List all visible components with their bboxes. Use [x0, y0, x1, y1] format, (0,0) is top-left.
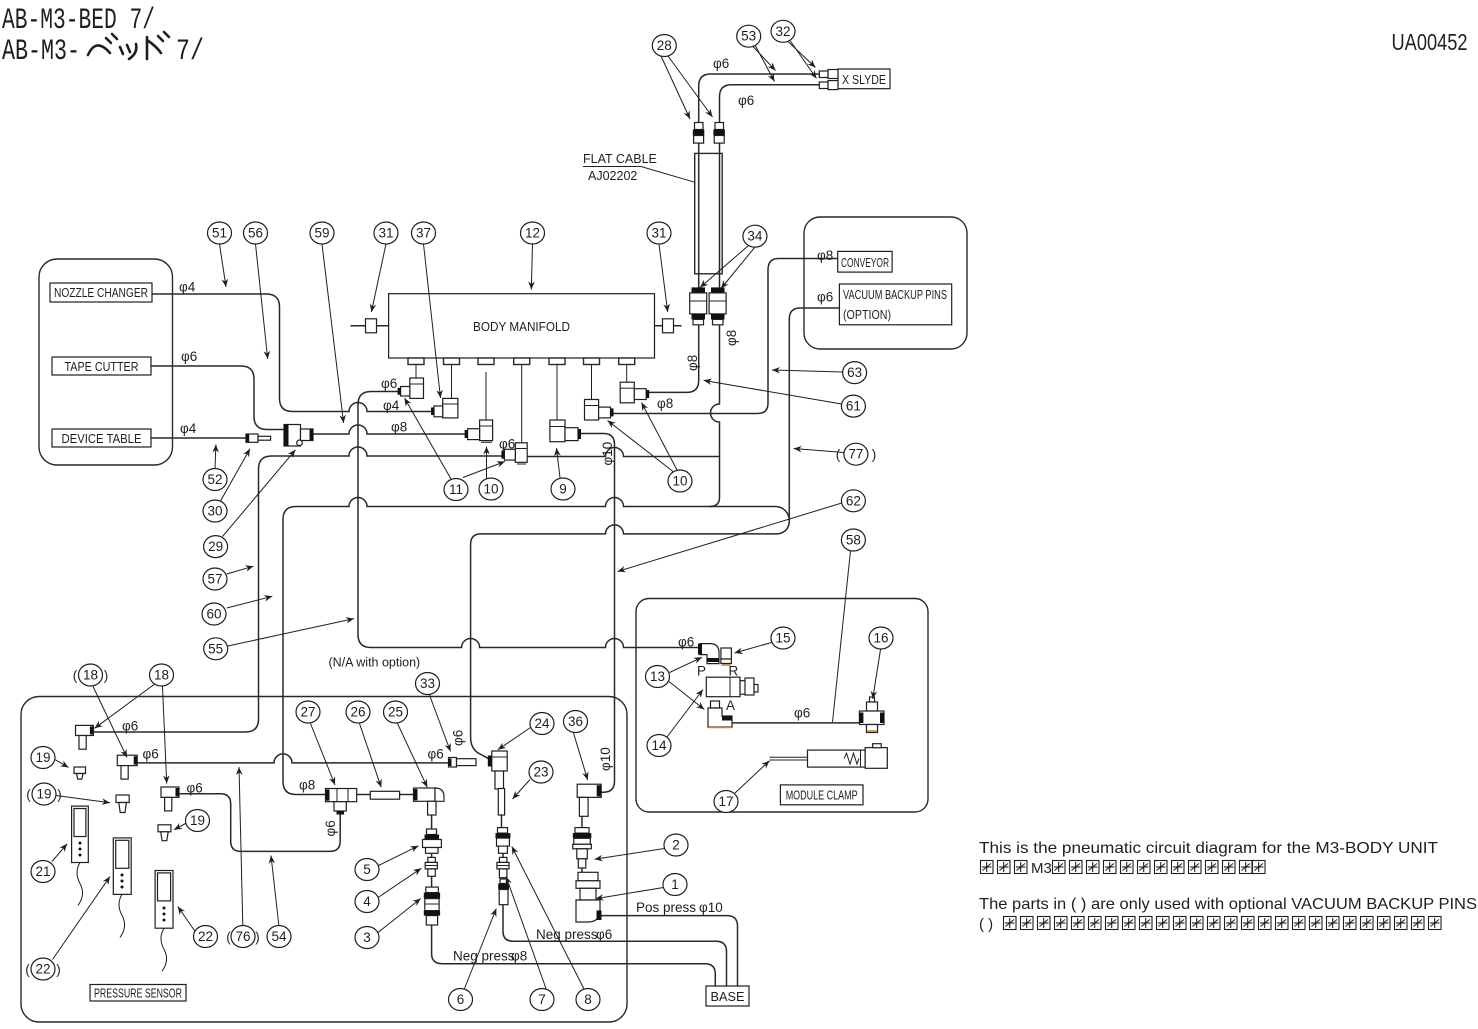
- fitting 5: [423, 829, 442, 853]
- svg-text:φ6: φ6: [323, 820, 338, 836]
- union fittings 34 pair below flat cable: [690, 287, 727, 324]
- svg-text:30: 30: [207, 504, 222, 519]
- balloon 15: [771, 627, 795, 649]
- rotated dimension labels: [323, 330, 739, 837]
- fitting 6: [498, 879, 509, 905]
- box DEVICE TABLE: [52, 429, 151, 447]
- enclosure pressure sensor bottom: [21, 697, 627, 1023]
- leader 13: [670, 657, 703, 672]
- balloon 4: [355, 891, 379, 913]
- balloon 34: [743, 225, 767, 247]
- leader 53: [753, 47, 776, 71]
- svg-text:φ4: φ4: [179, 280, 196, 295]
- box PRESSURE SENSOR: [90, 985, 186, 1002]
- balloon 18: [150, 664, 174, 686]
- svg-text:φ4: φ4: [180, 421, 197, 436]
- dimension labels: [122, 56, 833, 964]
- leader 2: [595, 849, 665, 860]
- balloon 7: [530, 989, 554, 1011]
- leader 77: [794, 449, 844, 453]
- leader 63: [772, 370, 843, 372]
- svg-text:A: A: [726, 698, 735, 713]
- strainer 26: [370, 791, 399, 799]
- svg-text:(: (: [836, 447, 841, 462]
- svg-text:φ8: φ8: [724, 330, 739, 346]
- leader 16: [873, 650, 881, 700]
- wire flat cable right tube to elbow4 line, X SLYDE lower: [710, 85, 839, 507]
- wire fitting24 stem chain col: [502, 773, 504, 879]
- leader 25: [398, 724, 428, 788]
- leader 15: [735, 643, 772, 654]
- balloon 32: [771, 20, 795, 42]
- balloon 52: [203, 469, 227, 491]
- leader 10 two arrows: [486, 447, 488, 479]
- leader 18 parens: [93, 687, 127, 758]
- svg-text:25: 25: [388, 705, 403, 720]
- svg-text:Pos press: Pos press: [636, 900, 696, 915]
- svg-text:φ8: φ8: [511, 949, 527, 964]
- svg-text:φ6: φ6: [187, 781, 203, 796]
- module elbow A 14: [708, 701, 732, 728]
- svg-text:12: 12: [525, 226, 540, 241]
- svg-text:X SLYDE: X SLYDE: [842, 73, 886, 87]
- leader 14: [667, 690, 703, 738]
- plug 19-2: [116, 795, 129, 813]
- balloon 30: [203, 500, 227, 522]
- pressure sensor 22a: [113, 838, 131, 938]
- svg-text:AB-M3-BED 7/: AB-M3-BED 7/: [2, 4, 155, 38]
- port7 elbow fitting: [620, 382, 649, 403]
- leader 27: [311, 724, 336, 786]
- balloon 28: [652, 35, 676, 57]
- svg-text:PRESSURE SENSOR: PRESSURE SENSOR: [94, 987, 182, 1001]
- port1 elbow fitting: [398, 378, 424, 398]
- balloon 31 left: [374, 222, 398, 244]
- svg-text:Neg press: Neg press: [536, 927, 598, 942]
- svg-text:19: 19: [36, 787, 51, 802]
- svg-text:φ6: φ6: [122, 719, 138, 734]
- balloon 29: [204, 536, 228, 558]
- wire phi10 port5 down to elbow36: [578, 434, 615, 793]
- svg-text:φ6: φ6: [143, 747, 159, 762]
- svg-text:φ10: φ10: [699, 900, 723, 915]
- svg-text:76: 76: [235, 929, 250, 944]
- svg-text:21: 21: [35, 864, 50, 879]
- svg-text:BODY MANIFOLD: BODY MANIFOLD: [473, 320, 570, 334]
- svg-text:φ6: φ6: [181, 349, 197, 364]
- svg-text:φ6: φ6: [428, 747, 444, 762]
- manifold ports: [408, 358, 635, 365]
- svg-text:BASE: BASE: [711, 990, 745, 1004]
- svg-text:62: 62: [846, 493, 861, 508]
- balloon 8: [576, 989, 600, 1011]
- elbow 18-3: [161, 787, 179, 811]
- balloon 36: [564, 711, 588, 733]
- leader 23: [513, 780, 531, 800]
- svg-text:32: 32: [775, 24, 790, 39]
- quick joint socket 29: [284, 425, 313, 447]
- balloon 19 parens: [26, 783, 62, 805]
- wire port4 right segment to bracket: [527, 448, 719, 457]
- leader 36: [574, 733, 588, 780]
- balloon 10 right: [668, 470, 692, 492]
- leader 52: [214, 445, 217, 469]
- leader 7: [506, 877, 546, 989]
- svg-text:52: 52: [207, 472, 222, 487]
- balloon 27: [296, 701, 320, 723]
- svg-text:φ6: φ6: [596, 927, 612, 942]
- svg-text:CONVEYOR: CONVEYOR: [841, 256, 889, 270]
- balloon 1: [663, 874, 687, 896]
- wire tee27 to strainer26: [357, 794, 371, 796]
- balloons: [25, 20, 893, 1010]
- leader 59: [322, 244, 344, 423]
- leader 31 right: [659, 244, 668, 312]
- balloon 53: [737, 25, 761, 47]
- balloon 51: [208, 222, 232, 244]
- svg-text:φ8: φ8: [657, 396, 673, 411]
- leader 29: [223, 450, 296, 537]
- svg-text:13: 13: [650, 669, 665, 684]
- balloon 22: [194, 926, 218, 948]
- svg-text:P: P: [697, 664, 706, 679]
- fitting 3: [424, 887, 440, 925]
- svg-text:AB-M3-: AB-M3-: [2, 35, 80, 69]
- svg-text:): ): [57, 787, 62, 802]
- wire neg press phi8 to BASE: [432, 925, 716, 986]
- fitting 4: [425, 857, 437, 876]
- japanese line 2: [979, 916, 1441, 933]
- leader 19 parens: [56, 796, 110, 803]
- balloon 19-1: [31, 747, 55, 769]
- leader 56: [256, 244, 268, 359]
- svg-text:AJ02202: AJ02202: [588, 169, 637, 183]
- leader 55: [228, 619, 354, 646]
- svg-text:(: (: [26, 787, 31, 802]
- svg-text:): ): [872, 447, 877, 462]
- box BASE: [706, 986, 749, 1006]
- svg-text:φ8: φ8: [685, 355, 700, 371]
- leader 17: [735, 761, 770, 793]
- inline fitting 33: [449, 758, 477, 768]
- balloon 33: [416, 673, 440, 695]
- wire nozzle changer phi4 to port2: [152, 294, 434, 412]
- svg-text:7/: 7/: [176, 35, 204, 69]
- balloon 61: [841, 395, 865, 417]
- svg-text:4: 4: [363, 894, 371, 909]
- balloon 9: [551, 478, 575, 500]
- fitting 2: [573, 828, 592, 868]
- wire port1 phi6 to module clamp valve: [358, 392, 699, 648]
- japanese line 1: [981, 860, 1266, 877]
- leader 30: [221, 449, 251, 501]
- body manifold: [389, 294, 655, 358]
- svg-text:8: 8: [584, 992, 592, 1007]
- wire elbow25 stem to fitting5 chain: [431, 813, 433, 887]
- svg-text:19: 19: [35, 750, 50, 765]
- enclosure left (nozzle/tape/device): [39, 259, 173, 465]
- svg-text:60: 60: [206, 607, 221, 622]
- balloon 56: [244, 222, 268, 244]
- box TAPE CUTTER: [52, 357, 151, 375]
- svg-text:61: 61: [846, 399, 861, 414]
- balloon 17: [714, 791, 738, 813]
- svg-text:56: 56: [248, 226, 263, 241]
- svg-text:φ6: φ6: [794, 706, 810, 721]
- port5 elbow fitting phi10: [550, 420, 581, 442]
- enclosure vacuum option top right: [804, 217, 967, 349]
- balloon 58: [841, 529, 865, 551]
- balloon 54: [267, 926, 291, 948]
- balloon 12: [521, 222, 545, 244]
- svg-text:33: 33: [420, 676, 435, 691]
- flat cable rect: [695, 153, 723, 273]
- svg-text:19: 19: [190, 813, 205, 828]
- wire quick joint to port3 phi8: [313, 425, 468, 434]
- leader 21: [52, 844, 67, 862]
- svg-text:6: 6: [457, 992, 465, 1007]
- svg-text:( ): ( ): [979, 916, 993, 933]
- svg-text:63: 63: [847, 365, 862, 380]
- svg-text:36: 36: [568, 714, 583, 729]
- svg-text:11: 11: [449, 482, 463, 497]
- balloon 11: [444, 479, 468, 501]
- svg-text:FLAT CABLE: FLAT CABLE: [583, 152, 657, 166]
- balloon 63: [843, 362, 867, 384]
- svg-text:φ10: φ10: [598, 747, 613, 771]
- leader 57: [227, 566, 254, 574]
- svg-text:10: 10: [672, 474, 687, 489]
- wire strainer26 to elbow25: [400, 794, 414, 796]
- svg-text:Neg press: Neg press: [453, 949, 515, 964]
- svg-text:29: 29: [208, 539, 223, 554]
- svg-text:φ4: φ4: [383, 398, 400, 413]
- svg-text:34: 34: [747, 229, 763, 244]
- balloon 13: [646, 666, 670, 688]
- balloon 25: [384, 701, 408, 723]
- svg-text:φ8: φ8: [817, 248, 833, 263]
- balloon 14: [647, 735, 671, 757]
- leader 4: [378, 868, 421, 897]
- elbow fitting 1 phi10: [576, 872, 602, 922]
- balloon 60: [202, 603, 226, 625]
- balloon 10: [479, 478, 503, 500]
- leader 19-3: [174, 824, 186, 830]
- wire port7 phi8 to flat cable left tube to X SLYDE: [646, 74, 838, 392]
- svg-text:16: 16: [873, 631, 888, 646]
- balloon 55: [204, 638, 228, 660]
- enclosure module clamp: [636, 599, 928, 813]
- svg-text:): ): [56, 962, 61, 977]
- leader 26: [360, 724, 382, 788]
- box X SLYDE: [838, 69, 890, 89]
- svg-text:(OPTION): (OPTION): [843, 308, 891, 322]
- svg-text:17: 17: [718, 794, 733, 809]
- tube 23: [498, 789, 504, 816]
- leader 76: [239, 767, 243, 925]
- pressure sensor 21: [72, 806, 89, 905]
- leader 6: [465, 909, 497, 989]
- leader 11: [405, 398, 452, 479]
- fitting pair at X SLYDE: [819, 70, 838, 90]
- balloon 77 parens: [836, 443, 877, 465]
- svg-text:53: 53: [741, 29, 756, 44]
- svg-text:(N/A with option): (N/A with option): [329, 656, 421, 670]
- svg-text:18: 18: [154, 668, 169, 683]
- leader 28: [661, 56, 690, 119]
- elbow 36: [577, 784, 601, 816]
- port2 elbow fitting: [431, 398, 458, 418]
- leader 61: [704, 380, 842, 404]
- port stems: [416, 365, 627, 443]
- leader 58: [833, 551, 851, 722]
- svg-text:φ6: φ6: [678, 635, 694, 650]
- svg-text:9: 9: [559, 482, 567, 497]
- balloon 6: [449, 989, 473, 1011]
- wire phi8 loop tee27 to vacuum line: [283, 498, 789, 795]
- wire conveyor phi8 from port6: [611, 259, 838, 414]
- svg-text:2: 2: [672, 838, 680, 853]
- module cylinder 17: [770, 744, 888, 769]
- wire elbow36 stem to fitting2: [581, 816, 583, 872]
- elbow 25: [414, 788, 445, 815]
- tube fittings 28 upper pair: [693, 123, 725, 144]
- svg-text:φ8: φ8: [391, 420, 407, 435]
- leader 18: [95, 684, 156, 729]
- svg-text:37: 37: [416, 226, 431, 241]
- svg-text:10: 10: [483, 482, 498, 497]
- wire module interior phi6 elbow14 to regulator16: [732, 722, 860, 724]
- leader 31 left: [371, 244, 386, 312]
- svg-text:55: 55: [208, 641, 223, 656]
- svg-text:15: 15: [775, 631, 790, 646]
- wire device table phi4: [151, 437, 246, 439]
- svg-text:UA00452: UA00452: [1392, 29, 1468, 55]
- svg-text:φ10: φ10: [600, 442, 615, 466]
- leader 3: [378, 899, 421, 933]
- svg-text:31: 31: [651, 226, 666, 241]
- svg-text:31: 31: [378, 226, 393, 241]
- balloon 59: [310, 222, 334, 244]
- svg-text:φ6: φ6: [381, 376, 397, 391]
- svg-text:): ): [255, 930, 260, 945]
- svg-text:77: 77: [848, 447, 863, 462]
- svg-text:22: 22: [198, 929, 213, 944]
- svg-text:24: 24: [534, 716, 550, 731]
- leader 8: [512, 847, 584, 990]
- port6 elbow fitting: [585, 400, 614, 421]
- balloon 19-3: [186, 810, 210, 832]
- svg-text:5: 5: [363, 862, 371, 877]
- svg-text:57: 57: [207, 572, 222, 587]
- module valve body 14/13: [706, 677, 758, 697]
- balloon 22 parens: [25, 958, 61, 980]
- tee fitting 27: [326, 789, 357, 815]
- svg-text:14: 14: [651, 738, 667, 753]
- leader lines: [52, 41, 881, 990]
- svg-text:22: 22: [35, 962, 50, 977]
- balloon 21: [31, 861, 55, 883]
- leader 33: [430, 695, 451, 752]
- wire neg press phi6 to BASE: [503, 905, 727, 986]
- plug 19-3: [158, 825, 171, 841]
- fitting 8: [496, 828, 511, 854]
- svg-text:R: R: [729, 664, 739, 679]
- svg-text:59: 59: [314, 226, 329, 241]
- balloon 62: [841, 490, 865, 512]
- leader 9: [557, 448, 561, 478]
- balloon 2: [664, 834, 688, 856]
- elbow4 bottom flange: [517, 463, 526, 465]
- port4 elbow fitting: [501, 443, 527, 463]
- plug 19-1: [74, 767, 86, 779]
- balloon 76 parens: [226, 926, 260, 948]
- wire elbow18-3 phi6 U-dip to tee27 stem: [179, 794, 340, 852]
- elbow 18-1: [76, 725, 94, 749]
- svg-text:1: 1: [671, 877, 679, 892]
- svg-text:DEVICE TABLE: DEVICE TABLE: [62, 432, 142, 446]
- leader 5: [379, 846, 419, 866]
- svg-text:58: 58: [846, 533, 861, 548]
- balloon 37: [412, 222, 436, 244]
- leader 54: [271, 856, 279, 926]
- leader 22: [178, 907, 196, 933]
- svg-text:The parts in ( ) are only used: The parts in ( ) are only used with opti…: [979, 896, 1477, 913]
- svg-text:23: 23: [533, 765, 548, 780]
- fitting 7: [497, 857, 509, 877]
- svg-text:φ6: φ6: [738, 93, 754, 108]
- elbow 24: [488, 751, 507, 789]
- device plug fitting 30: [246, 434, 271, 442]
- manifold left cap: [351, 319, 389, 333]
- svg-text:(: (: [73, 668, 78, 683]
- svg-text:54: 54: [271, 929, 287, 944]
- balloon 3: [355, 927, 379, 949]
- svg-text:51: 51: [212, 226, 227, 241]
- leader 10 right two arrows: [608, 421, 674, 472]
- leader 22 parens: [53, 877, 111, 960]
- svg-text:3: 3: [363, 930, 371, 945]
- leader 1: [596, 888, 664, 899]
- balloon 26: [346, 701, 370, 723]
- wire tape cutter phi6 to quick joint: [151, 366, 284, 430]
- balloon 16: [869, 627, 893, 649]
- svg-text:M3: M3: [1031, 860, 1052, 877]
- balloon 18 parens: [73, 664, 109, 686]
- wire elbow18-2 phi6 to fitting33: [137, 754, 448, 763]
- svg-text:28: 28: [657, 38, 672, 53]
- balloon 5: [355, 859, 379, 881]
- balloon 57: [203, 568, 227, 590]
- box CONVEYOR: [838, 251, 892, 272]
- svg-text:NOZZLE CHANGER: NOZZLE CHANGER: [54, 286, 148, 300]
- leader 51: [220, 244, 227, 287]
- leader 12: [531, 244, 532, 290]
- balloon 31 right: [647, 222, 671, 244]
- svg-text:φ6: φ6: [713, 56, 729, 71]
- box VACUUM BACKUP PINS (OPTION): [839, 284, 951, 325]
- leader 60: [227, 596, 272, 608]
- svg-text:18: 18: [83, 668, 98, 683]
- svg-text:(: (: [25, 962, 30, 977]
- wire pos press phi10 to BASE: [602, 916, 738, 986]
- svg-text:(: (: [226, 930, 231, 945]
- elbow3 bottom flange: [481, 441, 492, 443]
- module regulator 16: [859, 697, 884, 733]
- module clamp elbow 13: [698, 644, 719, 664]
- box MODULE CLAMP: [780, 785, 863, 805]
- wire elbow18-1 phi6 up to port4: [93, 447, 504, 732]
